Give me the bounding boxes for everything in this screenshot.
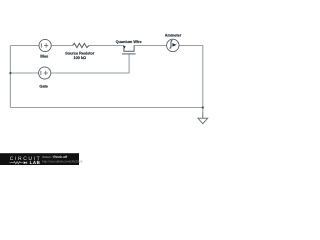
- wire: top-left horizontal to Bias source: [10, 45, 39, 47]
- svg-text:Bias: Bias: [40, 54, 48, 59]
- wire: gate source to gate lead corner: [51, 54, 129, 73]
- svg-text:100 kΩ: 100 kΩ: [74, 55, 87, 60]
- transistor gate bar: [122, 53, 136, 55]
- voltage source V2 Gate: [39, 67, 51, 79]
- label Ammeter: [165, 33, 181, 38]
- footer logo CIRCUIT: [10, 156, 41, 162]
- wire: left vertical (node from Bias- to bottom rail): [9, 46, 11, 108]
- svg-text:Gate: Gate: [39, 84, 47, 89]
- footer logo LAB: [30, 160, 41, 165]
- label Quantum Wire: [116, 39, 142, 44]
- label Bias: [40, 54, 48, 59]
- node A: junction of gate branch with left rail: [9, 72, 11, 74]
- wire: gate source left lead: [10, 72, 38, 74]
- label Source Resistor: [65, 51, 94, 56]
- svg-text:Ammeter: Ammeter: [165, 33, 181, 38]
- svg-text:Quantum Wire: Quantum Wire: [116, 39, 142, 44]
- voltage source V1 Bias: [39, 39, 51, 51]
- footer text line 2: [42, 160, 83, 164]
- node B: junction of ground with bottom rail: [202, 106, 204, 108]
- footer logo diode arrow: [24, 161, 27, 164]
- wire: resistor to quantum wire device: [89, 45, 124, 47]
- svg-text:http://circuitlab.com/c8v29p5: http://circuitlab.com/c8v29p5: [42, 160, 83, 164]
- ammeter M1: [167, 39, 179, 51]
- svg-text:drawn / Pinch-off: drawn / Pinch-off: [42, 156, 68, 160]
- wire: ammeter to top-right corner and down right side: [179, 46, 203, 113]
- arrow on source contact (points down): [123, 46, 126, 49]
- ammeter arrow head: [172, 43, 176, 47]
- wire: quantum wire device to ammeter: [134, 45, 166, 47]
- footer text line 1: [42, 156, 68, 160]
- transistor Q1 quantum wire device: channel staple: [124, 46, 134, 52]
- wire: bottom rail: [10, 107, 202, 109]
- wire: Bias source to resistor: [51, 45, 72, 47]
- ground GND: [198, 113, 208, 124]
- resistor R1 Source Resistor: [73, 43, 89, 47]
- footer watermark bar: [0, 153, 79, 165]
- value 100 kOhm: [74, 55, 87, 60]
- footer logo wire+zigzag: [10, 162, 23, 164]
- label Gate: [39, 84, 47, 89]
- svg-text:LAB: LAB: [30, 160, 41, 165]
